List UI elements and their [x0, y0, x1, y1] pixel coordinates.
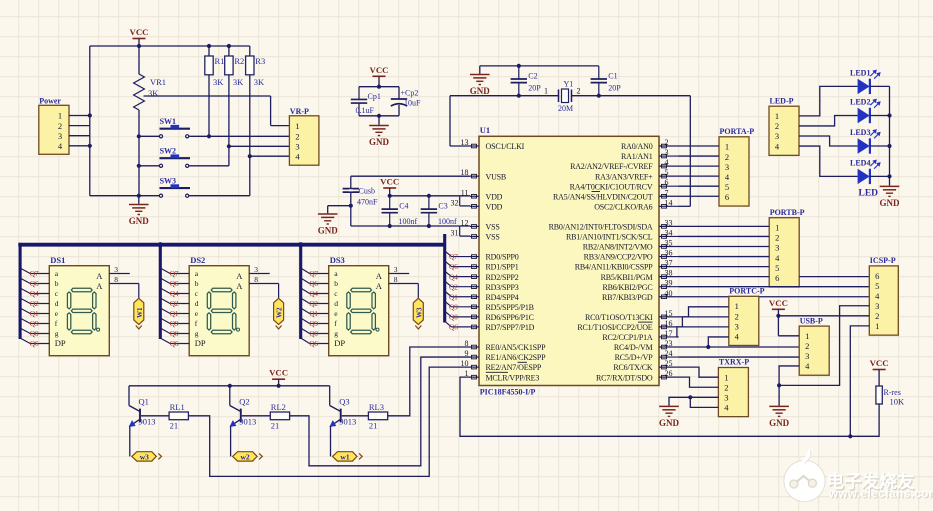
svg-text:RA3/AN3/VREF+: RA3/AN3/VREF+ — [595, 172, 653, 181]
svg-text:32: 32 — [451, 198, 459, 207]
svg-text:RA2/AN2/VREF-/CVREF: RA2/AN2/VREF-/CVREF — [570, 162, 653, 171]
svg-text:VCC: VCC — [129, 27, 148, 37]
svg-text:TXRX-P: TXRX-P — [719, 358, 749, 367]
svg-text:GND: GND — [369, 137, 390, 147]
svg-text:100nf: 100nf — [438, 217, 457, 226]
svg-text:31: 31 — [451, 228, 459, 237]
svg-text:3K: 3K — [233, 77, 244, 87]
svg-text:RC0/T1OSO/T13CKI: RC0/T1OSO/T13CKI — [585, 313, 653, 322]
svg-text:3: 3 — [665, 148, 669, 157]
svg-text:RB0/AN12/INT0/FLT0/SDI/SDA: RB0/AN12/INT0/FLT0/SDI/SDA — [549, 223, 653, 232]
svg-text:Q6: Q6 — [30, 339, 39, 348]
svg-text:10uF: 10uF — [404, 99, 421, 108]
svg-text:8: 8 — [114, 275, 118, 284]
svg-text:3: 3 — [725, 162, 729, 172]
svg-text:Q2: Q2 — [239, 397, 249, 407]
svg-text:RE0/AN5/CK1SPP: RE0/AN5/CK1SPP — [486, 343, 547, 352]
svg-text:7: 7 — [665, 188, 669, 197]
svg-text:LED3: LED3 — [850, 128, 870, 137]
svg-text:g: g — [195, 329, 199, 338]
svg-text:C4: C4 — [399, 201, 408, 210]
svg-text:A: A — [96, 281, 103, 291]
svg-text:15: 15 — [665, 309, 673, 318]
svg-text:13: 13 — [461, 138, 469, 147]
svg-text:Q4: Q4 — [170, 289, 179, 298]
svg-text:Q1: Q1 — [309, 309, 318, 318]
svg-text:GND: GND — [769, 418, 790, 428]
svg-text:17: 17 — [665, 329, 673, 338]
svg-text:C2: C2 — [528, 71, 537, 80]
svg-text:4: 4 — [875, 291, 880, 301]
svg-text:VDD: VDD — [486, 202, 503, 211]
svg-text:RC2/CCP1/P1A: RC2/CCP1/P1A — [602, 333, 652, 342]
svg-text:6: 6 — [875, 271, 879, 281]
svg-text:VUSB: VUSB — [486, 172, 507, 181]
svg-text:VCC: VCC — [870, 358, 889, 368]
svg-text:23: 23 — [665, 339, 673, 348]
svg-text:2: 2 — [725, 152, 729, 162]
svg-text:38: 38 — [665, 269, 673, 278]
svg-text:12: 12 — [461, 218, 469, 227]
svg-text:Q6: Q6 — [170, 279, 179, 288]
svg-text:W2: W2 — [276, 307, 284, 318]
svg-text:20P: 20P — [608, 83, 621, 92]
svg-text:W1: W1 — [136, 307, 144, 318]
svg-text:Q4: Q4 — [30, 289, 39, 298]
svg-text:RB6/KBI2/PGC: RB6/KBI2/PGC — [602, 283, 652, 292]
svg-text:33: 33 — [665, 218, 673, 227]
svg-text:9013: 9013 — [139, 417, 156, 427]
svg-text:SW2: SW2 — [160, 147, 176, 156]
svg-text:OSC1/CLKI: OSC1/CLKI — [486, 142, 525, 151]
svg-text:U1: U1 — [480, 125, 490, 135]
svg-text:DS1: DS1 — [50, 255, 65, 265]
svg-text:2: 2 — [775, 121, 779, 131]
svg-text:SW1: SW1 — [160, 117, 176, 126]
svg-text:Q0: Q0 — [309, 329, 318, 338]
svg-text:Q0: Q0 — [170, 329, 179, 338]
svg-text:VCC: VCC — [769, 298, 788, 308]
svg-text:Q7: Q7 — [30, 269, 39, 278]
svg-text:1: 1 — [724, 372, 728, 382]
svg-text:Y1: Y1 — [564, 80, 574, 89]
svg-text:Q1: Q1 — [30, 309, 39, 318]
svg-text:Q7: Q7 — [170, 269, 179, 278]
svg-text:Q6: Q6 — [309, 279, 318, 288]
svg-text:Q2: Q2 — [170, 299, 179, 308]
svg-text:DP: DP — [334, 338, 345, 348]
svg-text:R1: R1 — [215, 56, 225, 66]
svg-text:RL3: RL3 — [369, 402, 384, 412]
svg-text:w1: w1 — [340, 452, 349, 461]
svg-text:w2: w2 — [241, 452, 250, 461]
svg-text:5: 5 — [775, 263, 779, 273]
svg-text:RD5/SPP5/P1B: RD5/SPP5/P1B — [486, 303, 534, 312]
svg-text:www.elecfans.com: www.elecfans.com — [828, 489, 933, 501]
svg-text:MCLR/VPP/RE3: MCLR/VPP/RE3 — [486, 373, 540, 382]
svg-text:RC5/D+/VP: RC5/D+/VP — [615, 353, 654, 362]
svg-text:Power: Power — [39, 97, 61, 106]
svg-text:RC7/RX/DT/SDO: RC7/RX/DT/SDO — [596, 373, 653, 382]
svg-text:3: 3 — [775, 131, 779, 141]
svg-text:PORTB-P: PORTB-P — [770, 208, 805, 217]
svg-text:RA4/T0CKI/C1OUT/RCV: RA4/T0CKI/C1OUT/RCV — [570, 182, 653, 191]
svg-text:11: 11 — [461, 188, 469, 197]
svg-text:Q9: Q9 — [449, 302, 458, 311]
svg-text:Q4: Q4 — [449, 272, 458, 281]
svg-text:A: A — [376, 281, 383, 291]
svg-text:6: 6 — [665, 178, 669, 187]
svg-text:Cp1: Cp1 — [368, 92, 381, 101]
svg-text:RA5/AN4/SS/HLVDIN/C2OUT: RA5/AN4/SS/HLVDIN/C2OUT — [553, 192, 653, 201]
svg-text:24: 24 — [665, 349, 673, 358]
svg-text:Q4: Q4 — [309, 289, 318, 298]
svg-text:25: 25 — [665, 359, 673, 368]
svg-text:Q1: Q1 — [449, 292, 458, 301]
svg-text:RA1/AN1: RA1/AN1 — [621, 152, 653, 161]
svg-text:LED1: LED1 — [850, 68, 870, 77]
svg-text:GND: GND — [470, 86, 491, 96]
svg-text:R3: R3 — [255, 56, 265, 66]
svg-text:4: 4 — [735, 331, 740, 341]
svg-text:VSS: VSS — [486, 223, 500, 232]
svg-text:Q1: Q1 — [139, 397, 149, 407]
svg-text:3: 3 — [58, 131, 62, 141]
svg-text:RD3/SPP3: RD3/SPP3 — [486, 283, 519, 292]
svg-text:2: 2 — [805, 341, 809, 351]
svg-text:35: 35 — [665, 239, 673, 248]
svg-text:b: b — [55, 279, 59, 288]
svg-text:g: g — [55, 329, 59, 338]
svg-text:Q9: Q9 — [30, 319, 39, 328]
svg-text:RB5/KBI1/PGM: RB5/KBI1/PGM — [601, 273, 653, 282]
svg-text:100nf: 100nf — [399, 217, 418, 226]
svg-text:1: 1 — [775, 111, 779, 121]
svg-text:Q7: Q7 — [309, 269, 318, 278]
svg-text:14: 14 — [665, 198, 673, 207]
svg-text:RD4/SPP4: RD4/SPP4 — [486, 293, 519, 302]
svg-text:1: 1 — [725, 142, 729, 152]
svg-text:Q1: Q1 — [170, 309, 179, 318]
svg-text:OSC2/CLKO/RA6: OSC2/CLKO/RA6 — [594, 202, 652, 211]
svg-text:4: 4 — [805, 361, 810, 371]
svg-text:A: A — [236, 271, 243, 281]
svg-text:3: 3 — [295, 142, 299, 152]
svg-text:1: 1 — [875, 321, 879, 331]
svg-text:3: 3 — [394, 265, 398, 274]
svg-text:A: A — [236, 281, 243, 291]
svg-text:LED2: LED2 — [850, 98, 870, 107]
svg-text:5: 5 — [665, 168, 669, 177]
svg-text:LED: LED — [859, 189, 879, 199]
svg-text:1: 1 — [735, 301, 739, 311]
svg-text:5: 5 — [875, 281, 879, 291]
svg-text:Q6: Q6 — [449, 323, 458, 332]
svg-text:5: 5 — [725, 182, 729, 192]
svg-text:RD2/SPP2: RD2/SPP2 — [486, 273, 519, 282]
svg-text:Q0: Q0 — [449, 312, 458, 321]
svg-text:RB3/AN9/CCP2/VPO: RB3/AN9/CCP2/VPO — [584, 253, 653, 262]
svg-text:6: 6 — [725, 192, 729, 202]
svg-text:Q3: Q3 — [339, 397, 349, 407]
svg-text:8: 8 — [254, 275, 258, 284]
svg-text:4: 4 — [724, 403, 729, 413]
svg-text:DP: DP — [55, 338, 66, 348]
svg-text:DS3: DS3 — [330, 255, 345, 265]
svg-text:PORTC-P: PORTC-P — [729, 287, 764, 296]
svg-text:6: 6 — [775, 273, 779, 283]
svg-text:DS2: DS2 — [190, 255, 205, 265]
svg-text:2: 2 — [875, 311, 879, 321]
svg-text:9013: 9013 — [239, 417, 256, 427]
svg-text:3: 3 — [805, 351, 809, 361]
svg-text:RD7/SPP7/P1D: RD7/SPP7/P1D — [486, 323, 535, 332]
svg-text:PIC18F4550-I/P: PIC18F4550-I/P — [480, 387, 536, 396]
svg-text:Q6: Q6 — [170, 339, 179, 348]
svg-text:9013: 9013 — [339, 417, 356, 427]
svg-text:RB4/AN11/KBI0/CSSPP: RB4/AN11/KBI0/CSSPP — [575, 263, 653, 272]
svg-text:g: g — [334, 329, 338, 338]
svg-text:d: d — [195, 299, 199, 308]
svg-text:Q6: Q6 — [30, 279, 39, 288]
svg-text:4: 4 — [665, 158, 669, 167]
svg-text:2: 2 — [775, 233, 779, 243]
svg-text:18: 18 — [461, 168, 469, 177]
svg-text:SW3: SW3 — [160, 176, 176, 185]
svg-text:3K: 3K — [254, 77, 265, 87]
svg-text:3K: 3K — [213, 77, 224, 87]
svg-text:RD0/SPP0: RD0/SPP0 — [486, 253, 519, 262]
svg-text:w3: w3 — [140, 452, 149, 461]
svg-text:VR1: VR1 — [150, 77, 166, 87]
svg-text:VCC: VCC — [380, 177, 399, 187]
svg-text:b: b — [334, 279, 338, 288]
svg-text:Q2: Q2 — [309, 299, 318, 308]
svg-text:Q9: Q9 — [170, 319, 179, 328]
svg-text:1: 1 — [58, 111, 62, 121]
svg-text:RE1/AN6/CK2SPP: RE1/AN6/CK2SPP — [486, 353, 547, 362]
svg-text:RD6/SPP6/P1C: RD6/SPP6/P1C — [486, 313, 534, 322]
svg-text:Q2: Q2 — [449, 282, 458, 291]
svg-text:8: 8 — [394, 275, 398, 284]
svg-text:A: A — [376, 271, 383, 281]
svg-text:0.1uF: 0.1uF — [356, 106, 375, 115]
svg-text:W3: W3 — [415, 307, 423, 318]
svg-text:Q9: Q9 — [309, 319, 318, 328]
svg-text:ICSP-P: ICSP-P — [870, 256, 896, 265]
svg-text:LED-P: LED-P — [770, 96, 794, 105]
svg-text:3: 3 — [724, 393, 728, 403]
svg-text:470nF: 470nF — [357, 198, 378, 207]
svg-text:RE2/AN7/OESPP: RE2/AN7/OESPP — [486, 363, 542, 372]
svg-text:RC1/T1OSI/CCP2/UOE: RC1/T1OSI/CCP2/UOE — [577, 323, 652, 332]
svg-text:VDD: VDD — [486, 192, 503, 201]
svg-text:Cusb: Cusb — [359, 187, 375, 196]
svg-text:C1: C1 — [608, 71, 617, 80]
svg-text:2: 2 — [295, 132, 299, 142]
svg-text:Q7: Q7 — [449, 252, 458, 261]
svg-text:R2: R2 — [234, 56, 244, 66]
svg-text:C3: C3 — [438, 201, 447, 210]
svg-text:1: 1 — [805, 331, 809, 341]
svg-text:d: d — [55, 299, 59, 308]
svg-text:RB2/AN8/INT2/VMO: RB2/AN8/INT2/VMO — [583, 243, 653, 252]
svg-text:GND: GND — [318, 226, 339, 236]
svg-text:USB-P: USB-P — [800, 316, 823, 325]
svg-text:3: 3 — [114, 265, 118, 274]
svg-text:16: 16 — [665, 319, 673, 328]
svg-text:Q0: Q0 — [30, 329, 39, 338]
svg-text:37: 37 — [665, 259, 673, 268]
svg-text:2: 2 — [577, 87, 581, 96]
svg-text:20P: 20P — [528, 83, 541, 92]
svg-text:Q2: Q2 — [30, 299, 39, 308]
svg-text:VR-P: VR-P — [290, 107, 309, 116]
svg-text:10K: 10K — [890, 397, 906, 407]
svg-text:3: 3 — [254, 265, 258, 274]
svg-text:40: 40 — [665, 289, 673, 298]
svg-text:4: 4 — [775, 253, 780, 263]
svg-text:RA0/AN0: RA0/AN0 — [621, 142, 653, 151]
svg-text:34: 34 — [665, 228, 673, 237]
svg-text:PORTA-P: PORTA-P — [720, 127, 755, 136]
svg-text:VSS: VSS — [486, 233, 500, 242]
svg-text:VCC: VCC — [369, 65, 388, 75]
svg-text:RB7/KBI3/PGD: RB7/KBI3/PGD — [602, 293, 653, 302]
svg-text:2: 2 — [735, 311, 739, 321]
svg-text:RL1: RL1 — [170, 402, 185, 412]
svg-text:3: 3 — [775, 243, 779, 253]
svg-text:DP: DP — [195, 338, 206, 348]
svg-text:RB1/AN10/INT1/SCK/SCL: RB1/AN10/INT1/SCK/SCL — [566, 233, 653, 242]
svg-text:Cp2: Cp2 — [405, 89, 418, 98]
svg-text:3: 3 — [735, 321, 739, 331]
svg-text:21: 21 — [369, 421, 378, 431]
svg-text:2: 2 — [665, 138, 669, 147]
svg-text:2: 2 — [724, 382, 728, 392]
svg-text:GND: GND — [129, 216, 150, 226]
svg-text:A: A — [96, 271, 103, 281]
svg-text:36: 36 — [665, 249, 673, 258]
svg-text:2: 2 — [58, 121, 62, 131]
svg-text:LED4: LED4 — [850, 158, 870, 167]
svg-text:21: 21 — [170, 421, 179, 431]
svg-text:39: 39 — [665, 279, 673, 288]
svg-text:RC6/TX/CK: RC6/TX/CK — [613, 363, 653, 372]
svg-text:Q6: Q6 — [449, 262, 458, 271]
svg-text:RL2: RL2 — [271, 402, 286, 412]
svg-text:1: 1 — [544, 87, 548, 96]
svg-text:20M: 20M — [558, 104, 573, 113]
svg-text:Q6: Q6 — [309, 339, 318, 348]
svg-text:GND: GND — [659, 418, 680, 428]
svg-text:GND: GND — [880, 198, 901, 208]
svg-text:26: 26 — [665, 369, 673, 378]
svg-text:RD1/SPP1: RD1/SPP1 — [486, 263, 519, 272]
svg-text:1: 1 — [295, 121, 299, 131]
svg-text:1: 1 — [775, 223, 779, 233]
svg-text:3: 3 — [875, 301, 879, 311]
svg-text:d: d — [334, 299, 338, 308]
svg-text:21: 21 — [271, 421, 280, 431]
svg-text:b: b — [195, 279, 199, 288]
svg-text:VCC: VCC — [269, 368, 288, 378]
svg-text:RC4/D-/VM: RC4/D-/VM — [614, 343, 653, 352]
